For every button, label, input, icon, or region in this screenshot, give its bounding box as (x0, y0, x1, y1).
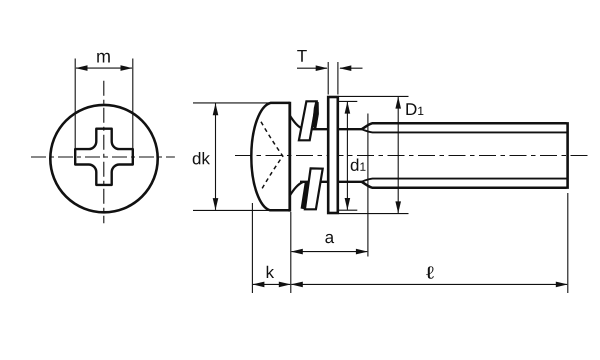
dk bottom extension line (193, 209, 272, 211)
spring washer bottom: black section wedge (301, 182, 309, 210)
wire: shank bottom surface (300, 181, 363, 183)
k dimension line with arrows (253, 283, 290, 285)
l right extension line (567, 193, 569, 293)
dk top extension line (193, 102, 272, 104)
D1 dimension line with arrows (397, 97, 399, 213)
screw end face (566, 122, 569, 189)
neck fillet bottom (290, 182, 304, 196)
d1 extension lines (338, 100, 357, 102)
thread taper + major/minor lines top (362, 123, 567, 129)
label D1 (406, 103, 423, 115)
vertical centerline (103, 81, 105, 224)
T extension lines (327, 62, 329, 95)
dk dimension line with arrows (215, 103, 217, 209)
head circle (50, 105, 157, 212)
main centerline (235, 155, 589, 157)
m dimension extension lines (74, 59, 76, 149)
label T (297, 50, 307, 62)
phillips recess cross (75, 129, 133, 185)
spring washer top: black section wedge (312, 100, 319, 130)
neck fillet top (290, 116, 304, 130)
label l (script ell) (426, 266, 434, 278)
d1 dimension line with arrows (346, 102, 348, 210)
dashed recess profile in head (261, 122, 283, 191)
label a (325, 234, 334, 243)
l dimension line with arrows (292, 283, 568, 285)
T dimension lines with arrows (297, 67, 327, 69)
label k (267, 266, 274, 278)
m dimension line with arrows (76, 67, 132, 69)
thread taper + major/minor lines bottom (362, 182, 567, 188)
label m (97, 53, 110, 63)
a extension line right (367, 114, 369, 257)
horizontal centerline (31, 156, 175, 158)
shared extension line (head face) for k / a / l (290, 212, 292, 293)
k left extension line (251, 203, 253, 293)
label d1 (351, 159, 366, 172)
wire: shank top surface (300, 128, 363, 130)
a dimension line with arrows (292, 251, 368, 253)
head right face (288, 102, 291, 212)
spring washer bottom: body (305, 168, 323, 209)
spring washer top: body (299, 101, 317, 140)
head outline (251, 103, 289, 210)
flat washer (328, 97, 338, 213)
D1 extension lines (339, 95, 409, 97)
label dk (193, 152, 210, 165)
